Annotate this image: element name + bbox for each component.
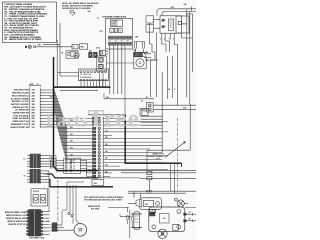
svg-text:1A1: 1A1 (32, 100, 35, 103)
svg-text:8A0: 8A0 (32, 114, 35, 117)
svg-text:START SOLENOID: START SOLENOID (12, 117, 29, 120)
svg-text:3C0: 3C0 (32, 127, 35, 129)
svg-text:FS3: FS3 (145, 204, 148, 206)
svg-text:1B0: 1B0 (70, 134, 73, 136)
svg-text:REMOTE RELAY GND: REMOTE RELAY GND (6, 217, 26, 220)
svg-text:WHEN TESTING: WHEN TESTING (88, 206, 101, 208)
svg-text:WT - WATER TEMP SWITCH (IF US: WT - WATER TEMP SWITCH (IF USED) (4, 38, 41, 41)
svg-text:CUSTOMER CONN: CUSTOMER CONN (29, 237, 45, 239)
svg-text:3B0: 3B0 (32, 124, 35, 126)
svg-text:P1: P1 (24, 159, 26, 161)
svg-text:WATER TEMP SW: WATER TEMP SW (13, 112, 29, 115)
svg-text:3B0: 3B0 (105, 158, 108, 160)
svg-text:WT: WT (189, 219, 191, 221)
svg-text:K11 K12: K11 K12 (33, 191, 39, 193)
svg-text:C2: C2 (106, 54, 108, 56)
svg-text:2: 2 (115, 31, 116, 33)
svg-text:SHOWN BOLD AS 10 GA WIRE.: SHOWN BOLD AS 10 GA WIRE. (62, 7, 91, 10)
svg-text:SCR: SCR (182, 24, 187, 26)
svg-text:2A0: 2A0 (32, 94, 35, 97)
svg-text:1B0: 1B0 (32, 104, 35, 106)
svg-text:BATTERY GROUND: BATTERY GROUND (11, 103, 29, 106)
svg-text:o o: o o (127, 40, 129, 42)
svg-text:GB1: GB1 (38, 45, 41, 47)
svg-text:o o: o o (121, 40, 123, 42)
svg-text:2: 2 (71, 14, 72, 16)
svg-text:3W0: 3W0 (88, 11, 91, 13)
svg-text:B1: B1 (134, 54, 136, 56)
svg-text:OIL PRESS SW: OIL PRESS SW (15, 110, 29, 112)
svg-text:5B0: 5B0 (105, 171, 108, 173)
svg-text:K1: K1 (146, 97, 148, 99)
svg-text:CB4: CB4 (135, 36, 138, 39)
svg-text:REMOTE PANEL CONN: REMOTE PANEL CONN (5, 211, 27, 214)
svg-text:CONNECT FOR: CONNECT FOR (152, 154, 165, 156)
svg-text:CONTROL PANEL LEGEND: CONTROL PANEL LEGEND (5, 3, 33, 6)
svg-text:CHARGE ALT EXC: CHARGE ALT EXC (12, 106, 29, 109)
svg-text:7A0: 7A0 (32, 89, 35, 92)
svg-text:4A0: 4A0 (32, 97, 35, 100)
svg-text:1: 1 (111, 31, 112, 33)
svg-text:NOT USED: NOT USED (91, 208, 100, 210)
svg-text:7W0: 7W0 (171, 7, 174, 9)
svg-text:TB2: TB2 (94, 183, 97, 185)
svg-text:J3: J3 (47, 221, 49, 223)
svg-text:6A0: 6A0 (32, 109, 35, 112)
svg-text:FIELD GROUND (-): FIELD GROUND (-) (12, 95, 29, 97)
svg-text:3A0: 3A0 (32, 120, 35, 123)
svg-text:SUPPLY: SUPPLY (111, 23, 118, 25)
svg-text:E1: E1 (141, 101, 143, 103)
svg-text:o o: o o (109, 40, 111, 42)
svg-text:SPARE INPUT SIG: SPARE INPUT SIG (12, 120, 29, 123)
svg-text:GEN FIELD PWR: GEN FIELD PWR (14, 90, 30, 92)
svg-text:OP: OP (189, 212, 191, 214)
svg-text:6B0: 6B0 (105, 144, 108, 146)
svg-text:CB3: CB3 (133, 50, 136, 52)
svg-text:BATTERY +12 VDC: BATTERY +12 VDC (12, 100, 30, 103)
svg-text:EMERGENCY STOP: EMERGENCY STOP (11, 124, 30, 126)
svg-text:3: 3 (120, 31, 121, 33)
svg-text:REMOTE START SIG: REMOTE START SIG (7, 220, 26, 223)
svg-text:TIP 2 WIRE AND GND, SEE DWG ON: TIP 2 WIRE AND GND, SEE DWG ONLY, OTHER (84, 198, 123, 201)
svg-text:GEN FIELD FLASH: GEN FIELD FLASH (12, 92, 30, 95)
svg-text:AC OUTPUT SENSE: AC OUTPUT SENSE (11, 97, 30, 100)
svg-text:REMOTE RELAY +12V: REMOTE RELAY +12V (6, 214, 27, 217)
svg-text:REMOTE START SW: REMOTE START SW (10, 126, 29, 129)
svg-text:o o: o o (115, 40, 117, 42)
svg-text:9A0: 9A0 (32, 117, 35, 120)
svg-text:REMOTE STOP 12V: REMOTE STOP 12V (8, 224, 26, 226)
svg-text:WIRE: WIRE (30, 84, 34, 86)
svg-text:P2: P2 (24, 176, 26, 178)
svg-text:FUEL SOLENOID: FUEL SOLENOID (13, 115, 29, 117)
svg-text:UCT2: UCT2 (96, 48, 100, 50)
svg-text:F1: F1 (73, 47, 75, 49)
svg-text:6B0: 6B0 (32, 113, 35, 115)
svg-text:5A0: 5A0 (32, 106, 35, 109)
svg-text:2B0: 2B0 (105, 165, 108, 167)
svg-text:7B0: 7B0 (32, 93, 35, 95)
svg-text:TB1: TB1 (50, 97, 53, 99)
